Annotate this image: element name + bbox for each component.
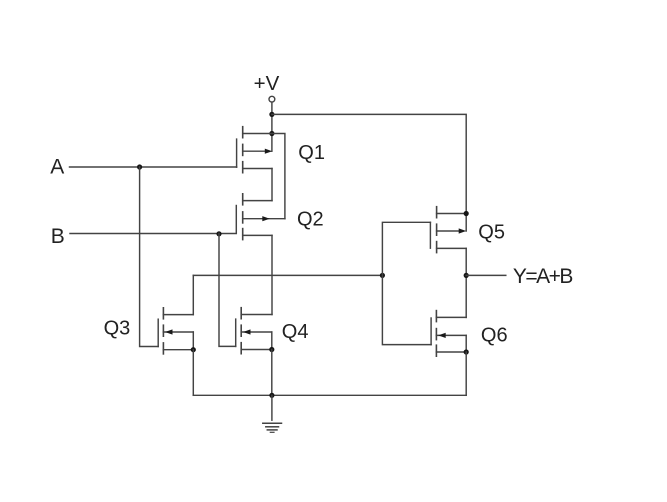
- wire: input A horizontal: [70, 166, 237, 168]
- svg-text:+V: +V: [254, 72, 280, 95]
- node ground rail junction dot: [269, 393, 274, 398]
- ground: [263, 395, 282, 432]
- node +V rail junction dot: [269, 112, 274, 117]
- node Q4 source junction dot: [269, 347, 274, 352]
- node Q5 drain junction dot: [464, 211, 469, 216]
- svg-text:A: A: [50, 155, 64, 178]
- transistor Q1 (PMOS): [237, 127, 273, 173]
- svg-text:Q3: Q3: [104, 317, 131, 339]
- wire: Q5 source down through Y node to Q6 drain: [465, 248, 467, 317]
- wire: Q1 drain to Q2 source: [271, 169, 273, 201]
- node Y output junction dot: [464, 273, 469, 278]
- svg-text:Q2: Q2: [297, 209, 324, 231]
- wire: Q6 source drop to ground rail: [465, 352, 467, 395]
- node Q3 source junction dot: [191, 347, 196, 352]
- power +V terminal circle: [269, 96, 275, 102]
- wire: Q2 drain down to Q4 drain: [271, 235, 273, 314]
- svg-text:Y=A+B: Y=A+B: [513, 265, 573, 288]
- wire: inverter gate bus: [382, 222, 431, 344]
- transistor Q3 (NMOS): [158, 308, 193, 354]
- wire: input B horizontal: [70, 233, 236, 235]
- svg-text:Q6: Q6: [481, 325, 508, 347]
- wire: B drop to Q4 gate: [219, 234, 236, 347]
- svg-text:Q5: Q5: [478, 221, 505, 243]
- transistor Q4 (NMOS): [236, 308, 272, 354]
- wire: Q3 source drop to ground rail: [192, 350, 194, 396]
- wire: +V branch to Q2 bulk: [272, 134, 285, 219]
- wire: ground rail: [193, 394, 466, 396]
- transistor Q5 (PMOS): [430, 207, 466, 253]
- wire: +V lead down: [271, 102, 273, 151]
- transistor Q6 (NMOS): [431, 311, 466, 357]
- node Q1 source junction dot: [269, 131, 274, 136]
- wire: Q4 source drop to ground rail: [271, 350, 273, 396]
- node Q6 source junction dot: [464, 349, 469, 354]
- wire: +V top rail to right: [272, 114, 466, 231]
- node A junction dot: [137, 164, 142, 169]
- transistor Q2 (PMOS): [236, 194, 285, 240]
- svg-text:Q4: Q4: [282, 321, 309, 343]
- wire: Q3 drain riser: [192, 275, 194, 314]
- wire: A drop to Q3 gate: [140, 167, 159, 347]
- svg-text:B: B: [51, 225, 65, 248]
- wire: Y output lead: [466, 274, 506, 276]
- svg-text:Q1: Q1: [298, 142, 325, 164]
- wire: NOR output node horizontal: [193, 274, 382, 276]
- node B junction dot: [216, 231, 221, 236]
- node NOR/gate-bus junction dot: [380, 273, 385, 278]
